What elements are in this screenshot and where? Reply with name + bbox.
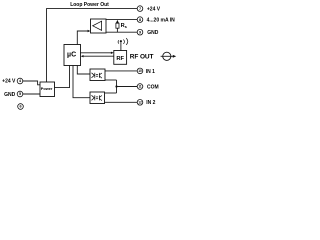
junction arrow at Rs top [116,20,119,23]
wire µC up to amp input [77,31,88,45]
terminal 9 [137,29,143,35]
wire loop +24V: terminal 7 across top and down to Power box [47,9,138,82]
svg-text:IN 2: IN 2 [146,100,155,106]
resistor Rs body [116,23,119,28]
svg-text:+24 V: +24 V [2,79,16,85]
arrowhead into amp input [88,30,91,32]
wire GND line amp to terminal 9 [106,31,137,33]
svg-text:IN 1: IN 1 [146,69,155,75]
terminal 6 [18,104,24,110]
amplifier box U1 [91,19,107,33]
antenna wave arc 2 [126,38,128,45]
terminal 7 [137,6,143,12]
svg-text:GND: GND [4,92,16,98]
optocoupler 2 symbol [92,95,102,100]
wire terminal 5 GND to Power box [23,93,40,95]
svg-text:Loop Power Out: Loop Power Out [70,2,109,8]
microcontroller box µC [64,45,81,66]
svg-text:COM: COM [147,84,159,90]
svg-text:µC: µC [67,52,76,59]
terminal 4 [17,78,23,84]
wire Power box to µC [55,66,70,88]
wire µC to optocoupler 1 [77,66,90,75]
wire amp output to terminal 8 [106,19,137,21]
wire opto1 to terminal 10 [105,70,137,72]
terminal 5 [17,91,23,97]
svg-text:9: 9 [139,30,141,34]
wire COM vertical jog [116,80,118,93]
wire opto1 bottom to COM jog [105,79,117,81]
junction dot COM [115,85,117,87]
svg-text:Power: Power [41,86,53,91]
svg-text:RF: RF [116,56,124,62]
wire µC to optocoupler 2 [73,66,90,98]
svg-text:10: 10 [138,69,142,73]
wire resistor bottom stub [116,28,118,32]
Power supply box [40,82,55,97]
svg-text:Rs: Rs [121,23,128,29]
antenna wave arc 1 [123,40,124,44]
svg-text:11: 11 [138,85,142,89]
svg-text:4...20 mA IN: 4...20 mA IN [147,18,176,24]
wire COM line to terminal 11 [117,86,138,88]
terminal 12 [137,100,143,106]
wire antenna mast [120,42,122,50]
svg-text:RF OUT: RF OUT [130,54,154,61]
terminal 8 [137,17,143,23]
optocoupler 1 symbol [92,73,102,78]
RF module box [114,51,127,65]
optocoupler 2 box [90,92,105,104]
wire RF OUT connector line [161,55,174,57]
antenna wave left arc [117,40,120,43]
wire data bus µC to RF [81,52,112,54]
svg-text:6: 6 [19,105,21,109]
optocoupler 1 box [90,69,105,81]
svg-text:12: 12 [138,100,142,104]
amplifier triangle [93,21,102,30]
arrowhead bus into RF [111,52,114,54]
wire opto2 bottom to terminal 12 [105,101,138,103]
wire terminal 4 to Power box [23,81,40,85]
svg-text:+24 V: +24 V [147,7,161,13]
svg-text:5: 5 [19,92,21,96]
arrowhead RF OUT [173,55,176,58]
terminal 10 [137,68,143,74]
wire opto2 top to COM jog [105,92,117,94]
antenna top dot [120,40,122,42]
svg-text:7: 7 [139,7,141,11]
arrowhead bus into µC [81,55,84,57]
terminal 11 [137,84,143,90]
svg-text:GND: GND [147,30,159,36]
wire data bus RF to µC [83,55,114,57]
svg-text:8: 8 [139,18,141,22]
RF OUT connector circle [163,52,171,60]
